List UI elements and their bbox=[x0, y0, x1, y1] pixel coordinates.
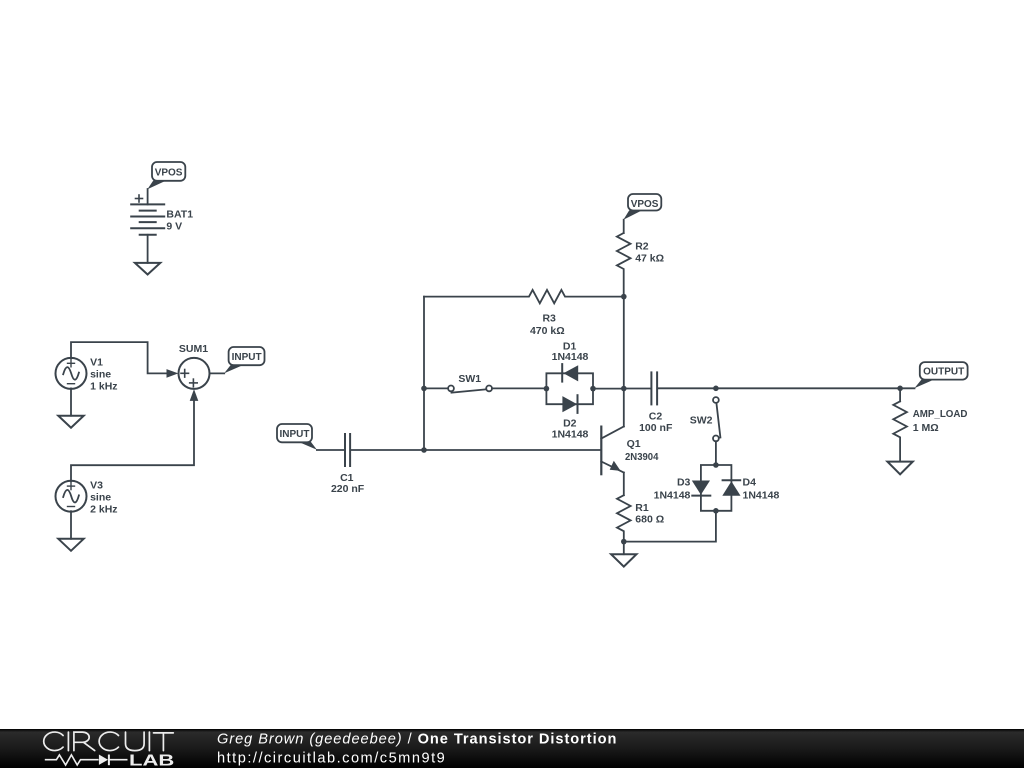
node AMP_LOAD top bbox=[897, 386, 903, 392]
ground below V3 bbox=[58, 539, 83, 551]
wire R1 to ground bbox=[623, 542, 625, 555]
svg-text:2N3904: 2N3904 bbox=[625, 451, 659, 463]
svg-text:R2: R2 bbox=[635, 240, 649, 252]
summing block SUM1 bbox=[179, 358, 210, 389]
battery BAT1 bbox=[131, 204, 164, 234]
capacitor C2 bbox=[651, 372, 657, 404]
svg-text:C2: C2 bbox=[649, 410, 663, 422]
svg-text:D4: D4 bbox=[743, 477, 757, 489]
svg-text:47 kΩ: 47 kΩ bbox=[635, 253, 664, 265]
node D-pair left bbox=[544, 386, 550, 392]
svg-text:sine: sine bbox=[90, 369, 111, 381]
logo resistor-diode symbol bbox=[45, 755, 128, 766]
svg-text:9 V: 9 V bbox=[166, 221, 182, 233]
svg-text:1N4148: 1N4148 bbox=[552, 351, 589, 363]
svg-text:LAB: LAB bbox=[129, 752, 174, 768]
wire SUM1 to INPUT flag bbox=[210, 372, 225, 374]
diode pair D3 D4 box bbox=[701, 465, 716, 511]
svg-text:INPUT: INPUT bbox=[232, 352, 262, 363]
wire VPOS flag to battery top bbox=[147, 189, 149, 204]
diode D1 bbox=[561, 364, 563, 382]
svg-text:1N4148: 1N4148 bbox=[654, 490, 691, 502]
wire vertical feedback column bbox=[423, 297, 425, 450]
node D3 D4 top bbox=[713, 462, 719, 468]
svg-text:SUM1: SUM1 bbox=[179, 343, 208, 355]
flag VPOS at BAT1 bbox=[152, 162, 185, 181]
source V1 bbox=[56, 358, 87, 389]
flag VPOS at R2 bbox=[628, 194, 661, 211]
svg-text:1 MΩ: 1 MΩ bbox=[913, 422, 939, 434]
diode pair D1 D2 box bbox=[546, 373, 593, 388]
svg-text:Q1: Q1 bbox=[627, 438, 641, 450]
svg-text:V3: V3 bbox=[90, 479, 103, 491]
diode D3 bbox=[692, 481, 710, 495]
svg-text:VPOS: VPOS bbox=[155, 168, 183, 179]
arrowhead into SUM1 bottom bbox=[190, 389, 199, 401]
svg-text:R3: R3 bbox=[542, 313, 556, 325]
wire row B through C2 to OUTPUT bbox=[624, 388, 651, 390]
wire rail R3 node to row B bbox=[623, 297, 625, 389]
svg-text:Greg Brown (geedeebee) / One T: Greg Brown (geedeebee) / One Transistor … bbox=[217, 731, 617, 747]
transistor Q1 bbox=[600, 427, 602, 475]
flag OUTPUT bbox=[920, 362, 968, 380]
svg-text:1N4148: 1N4148 bbox=[743, 490, 780, 502]
svg-text:C1: C1 bbox=[340, 472, 354, 484]
wire V3 top to SUM1 bottom bbox=[71, 400, 194, 481]
wire D-pair to rail bbox=[593, 388, 624, 390]
node rail row B bbox=[621, 386, 627, 392]
svg-text:680 Ω: 680 Ω bbox=[635, 514, 664, 526]
svg-text:AMP_LOAD: AMP_LOAD bbox=[913, 408, 968, 420]
svg-text:SW2: SW2 bbox=[690, 415, 713, 427]
svg-text:2 kHz: 2 kHz bbox=[90, 503, 117, 515]
switch SW1 bbox=[424, 387, 448, 389]
wire V1 top to SUM1 bbox=[71, 342, 168, 373]
svg-text:470 kΩ: 470 kΩ bbox=[530, 325, 565, 337]
svg-text:BAT1: BAT1 bbox=[166, 209, 193, 221]
node R1 bottom bbox=[621, 539, 627, 545]
ground below R1 bbox=[611, 554, 636, 566]
svg-text:1N4148: 1N4148 bbox=[552, 428, 589, 440]
svg-text:sine: sine bbox=[90, 491, 111, 503]
battery plus sign bbox=[136, 195, 143, 202]
ground below V1 bbox=[58, 416, 83, 428]
svg-text:SW1: SW1 bbox=[458, 373, 481, 385]
source V3 bbox=[56, 481, 87, 512]
node SW1 branch bbox=[421, 386, 427, 392]
node R3 right bbox=[621, 294, 627, 300]
diode D4 bbox=[723, 479, 741, 481]
switch SW2 bbox=[713, 397, 719, 403]
svg-text:VPOS: VPOS bbox=[631, 199, 659, 210]
flag INPUT (net out of SUM1) bbox=[229, 347, 265, 365]
node D-pair right bbox=[590, 386, 596, 392]
resistor AMP_LOAD bbox=[899, 388, 901, 401]
wire C1 to Q1 base bbox=[351, 449, 600, 451]
ground below AMP_LOAD bbox=[887, 462, 912, 475]
diode D2 bbox=[562, 396, 577, 412]
svg-text:INPUT: INPUT bbox=[280, 429, 310, 440]
node D3 D4 bottom bbox=[713, 508, 719, 514]
resistor R3 bbox=[424, 290, 624, 303]
svg-text:220 nF: 220 nF bbox=[331, 483, 365, 495]
wire V3 to ground bbox=[70, 511, 72, 539]
wire rail row B to Q1 collector bbox=[623, 389, 625, 427]
node main input junction bbox=[421, 447, 427, 453]
resistor R1 bbox=[617, 495, 631, 541]
svg-text:D3: D3 bbox=[677, 477, 691, 489]
svg-text:http://circuitlab.com/c5mn9t9: http://circuitlab.com/c5mn9t9 bbox=[217, 751, 446, 767]
ground below BAT1 bbox=[135, 263, 160, 275]
wire battery to ground bbox=[147, 235, 149, 263]
svg-text:100 nF: 100 nF bbox=[639, 422, 673, 434]
wire VPOS to R2 bbox=[623, 220, 625, 233]
svg-text:R1: R1 bbox=[635, 502, 649, 514]
footer bar bbox=[0, 729, 1024, 768]
svg-text:1 kHz: 1 kHz bbox=[90, 381, 117, 393]
node SW2 top bbox=[713, 386, 719, 392]
resistor R2 bbox=[617, 233, 631, 297]
wire D3 D4 bottom to R1 ground node bbox=[624, 511, 716, 542]
capacitor C1 bbox=[345, 434, 350, 466]
logo CIRCUIT drawn letters bbox=[44, 732, 174, 751]
svg-text:V1: V1 bbox=[90, 357, 103, 369]
svg-text:OUTPUT: OUTPUT bbox=[923, 367, 964, 378]
arrowhead into SUM1 left bbox=[167, 369, 179, 378]
flag INPUT (before C1) bbox=[277, 424, 312, 442]
wire V1 to ground bbox=[70, 388, 72, 415]
wire Q1 emitter to R1 bbox=[623, 473, 625, 496]
wire INPUT flag to C1 bbox=[317, 449, 344, 451]
